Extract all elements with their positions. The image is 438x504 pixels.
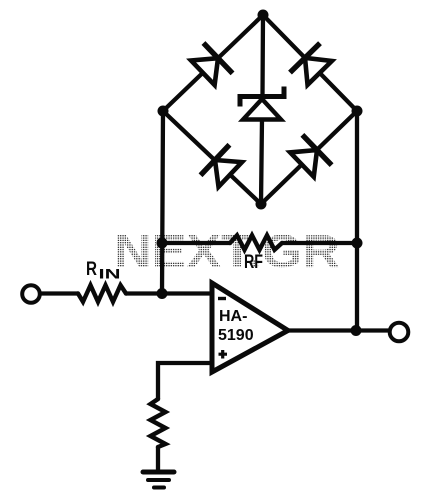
svg-text:RF: RF bbox=[244, 252, 263, 273]
svg-text:NEXT.GR: NEXT.GR bbox=[114, 225, 340, 277]
svg-text:5190: 5190 bbox=[218, 327, 254, 344]
svg-text:HA-: HA- bbox=[219, 308, 247, 325]
svg-text:IN: IN bbox=[99, 266, 121, 282]
svg-text:R: R bbox=[86, 259, 97, 280]
